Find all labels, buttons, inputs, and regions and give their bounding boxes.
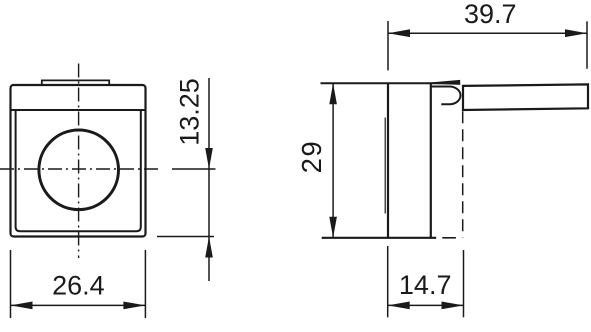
- side view body left edge: [387, 83, 389, 238]
- svg-text:13.25: 13.25: [175, 78, 205, 146]
- dimension 29 label: [296, 140, 327, 174]
- dimension 14.7 extension lines: [388, 246, 464, 317]
- svg-text:29: 29: [296, 140, 327, 174]
- side view spring seam line: [384, 118, 386, 214]
- svg-text:14.7: 14.7: [399, 270, 452, 300]
- side view hinge knuckle: [431, 87, 461, 105]
- front view inner recess: [16, 110, 141, 231]
- svg-text:26.4: 26.4: [52, 271, 105, 301]
- dimension 13.25 label: [175, 78, 205, 146]
- dimension 14.7 line: [388, 302, 464, 310]
- hole circle: [39, 130, 119, 210]
- dimension 13.25 line: [157, 78, 216, 281]
- svg-text:39.7: 39.7: [464, 0, 517, 29]
- front view cap line: [11, 109, 146, 111]
- dimension 39.7 extension lines: [388, 21, 587, 70]
- side view bottom edge: [322, 237, 456, 239]
- side view body right edge: [430, 83, 432, 238]
- dimension 14.7 label: [399, 270, 452, 300]
- front view outer body: [11, 85, 146, 237]
- side view lever wedge: [427, 80, 460, 84]
- dimension 39.7 line: [388, 29, 587, 37]
- dimension 29 line: [329, 83, 337, 238]
- horizontal centerline: [0, 168, 160, 170]
- dimension 13.25 arrows: [205, 148, 213, 258]
- dimension 26.4 label: [52, 271, 105, 301]
- dimension 26.4 extension lines: [11, 250, 146, 318]
- dimension 26.4 line: [11, 302, 146, 310]
- dimension 39.7 label: [464, 0, 517, 29]
- side view hidden edge dashed: [462, 111, 464, 237]
- side view top edge: [321, 82, 460, 84]
- side view lever arm: [463, 84, 588, 110]
- front view top tab: [42, 80, 109, 84]
- vertical centerline: [78, 64, 80, 259]
